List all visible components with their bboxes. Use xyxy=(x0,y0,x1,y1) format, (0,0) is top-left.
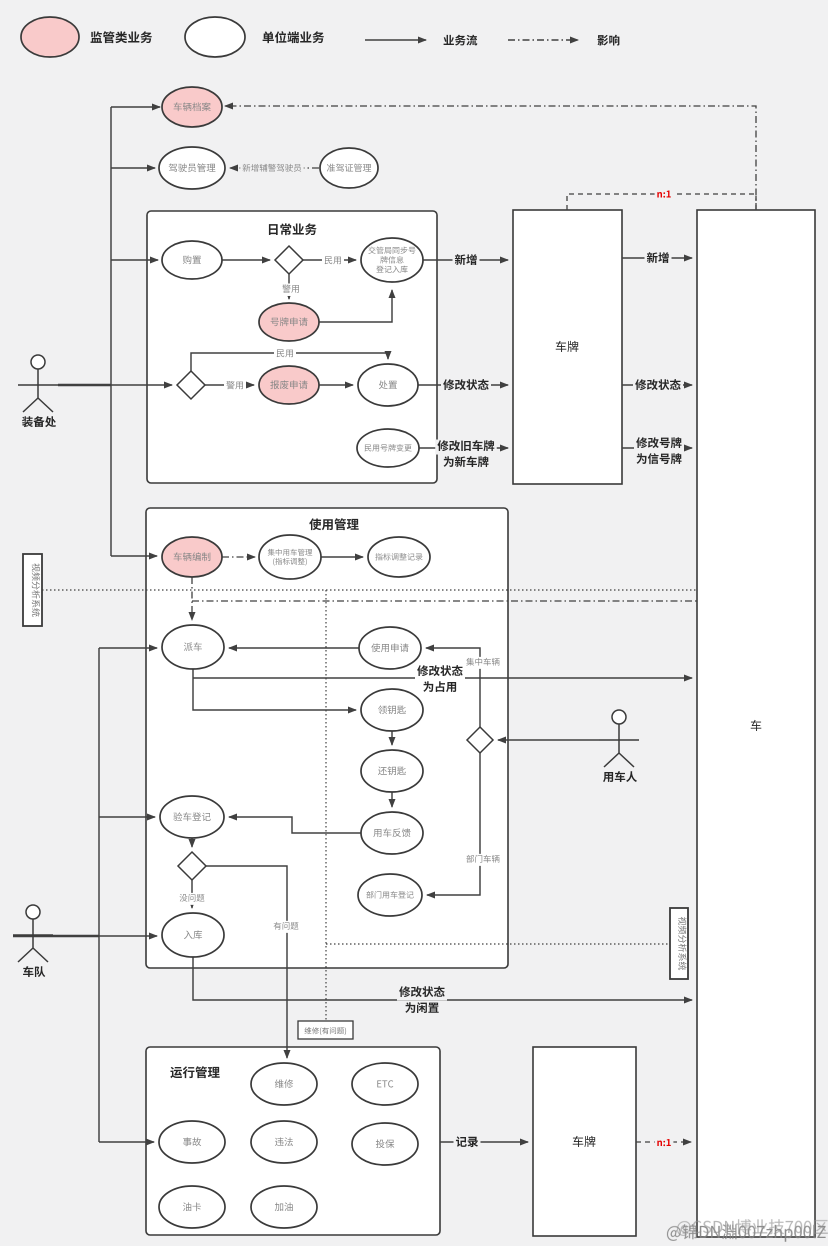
node 号牌申请 xyxy=(259,303,319,341)
diamond D4 xyxy=(178,852,206,880)
node 油卡 xyxy=(159,1186,225,1228)
node 验车登记 xyxy=(160,796,224,838)
label system left xyxy=(32,563,40,616)
title 日常业务 xyxy=(269,223,317,235)
dashdot influence 车→车辆档案 xyxy=(225,106,756,210)
wire trunk2→事故 xyxy=(99,1141,154,1143)
wire 入库→车 修改状态为闲置 xyxy=(193,957,692,1000)
wire diamond4→维修 有问题 xyxy=(206,866,287,1058)
wire 车牌→车 修改号牌 xyxy=(622,447,692,449)
label 修改状态为闲置 xyxy=(397,986,447,1001)
diamond D3 xyxy=(467,727,493,753)
wire 派车→领钥匙 xyxy=(193,669,356,710)
wire trunk2→派车 xyxy=(99,647,157,649)
legend unit-ellipse xyxy=(185,17,245,57)
wire 验车登记→diamond4 xyxy=(191,838,193,847)
node 领钥匙 xyxy=(361,689,423,731)
node 使用申请 xyxy=(359,627,421,669)
node 加油 xyxy=(251,1186,317,1228)
label n:1 bottom xyxy=(655,1137,674,1150)
dashdot 车辆编制→派车 xyxy=(191,577,193,620)
node 车辆档案 xyxy=(162,87,222,127)
trunk 装备处 vertical xyxy=(110,107,112,556)
label 新增 right xyxy=(645,252,672,267)
wire trunk→购置 xyxy=(111,259,158,261)
wire trunk→驾驶员管理 xyxy=(111,167,155,169)
dotted link bottom xyxy=(326,943,670,945)
legend label 监管类业务 xyxy=(91,31,153,43)
dashdot 准驾证管理→驾驶员管理 xyxy=(230,167,319,169)
node 用车反馈 xyxy=(361,812,423,854)
label 车牌 lower xyxy=(573,1136,596,1147)
diamond D1 xyxy=(275,246,303,274)
wire diamond2→报废申请 警用 xyxy=(205,384,254,386)
node 车辆编制 xyxy=(162,537,222,577)
box 车牌 lower xyxy=(533,1047,636,1236)
node 集中用车管理 xyxy=(259,535,321,579)
watermark xyxy=(667,1224,826,1242)
wire 使用申请→派车 xyxy=(229,647,359,649)
legend label 业务流 xyxy=(444,35,478,46)
legend influence arrow xyxy=(508,39,578,41)
dashdot 车辆编制→集中用车管理 xyxy=(222,556,255,558)
node 事故 xyxy=(159,1121,225,1163)
box 车牌 upper xyxy=(513,210,622,484)
label 修改号牌为信号牌 xyxy=(634,437,684,452)
diamond D2 xyxy=(177,371,205,399)
node 派车 xyxy=(162,625,224,669)
label 修改状态 left xyxy=(441,379,491,394)
wire 处置→车牌 修改状态 xyxy=(418,384,508,386)
wire 民用号牌变更→车牌 xyxy=(419,447,508,449)
label 修改状态为占用 xyxy=(415,665,465,680)
label 修改旧车牌为新车牌 xyxy=(435,440,497,455)
wire 车队 bold segment xyxy=(13,935,99,938)
dashed 车牌→车 n:1 xyxy=(636,1141,691,1143)
label n:1 top xyxy=(655,189,674,202)
title 运行管理 xyxy=(170,1066,219,1078)
legend label 影响 xyxy=(598,35,620,46)
node 民用号牌变更 xyxy=(357,429,419,467)
node 驾驶员管理 xyxy=(159,147,225,189)
wire 用车反馈→验车登记 xyxy=(229,817,361,833)
wire 报废申请→处置 xyxy=(319,384,353,386)
actor 装备处 xyxy=(31,355,45,369)
actor 车队 xyxy=(26,905,40,919)
node 指标调整记录 xyxy=(368,537,430,577)
label 新增辅警驾驶员 xyxy=(240,163,304,175)
box 日常业务 xyxy=(147,211,437,483)
wire 车牌→车 新增 xyxy=(622,257,692,259)
box 使用管理 xyxy=(146,508,508,968)
legend supervision-ellipse xyxy=(21,17,79,57)
node 还钥匙 xyxy=(361,750,423,792)
label 车 xyxy=(751,720,762,731)
wire 车队→入库 xyxy=(13,935,157,937)
wire 用车人→diamond3 xyxy=(498,739,599,741)
node 部门用车登记 xyxy=(358,874,422,916)
label 警用 row2 xyxy=(224,380,246,393)
label box 维修(有问题) xyxy=(298,1021,353,1039)
node 交管局同步号牌信息登记入库 xyxy=(361,238,423,282)
label 新增 left xyxy=(453,254,480,269)
wire 号牌申请→交管局 xyxy=(319,290,392,322)
box 车 xyxy=(697,210,815,1237)
label 警用 row1 xyxy=(280,283,302,296)
node 维修 xyxy=(251,1063,317,1105)
wire trunk2→验车登记 xyxy=(99,816,155,818)
wire 运行管理→车牌 记录 xyxy=(440,1141,528,1143)
label 有问题 xyxy=(271,921,301,933)
wire 集中用车管理→指标调整记录 xyxy=(321,556,363,558)
node 违法 xyxy=(251,1121,317,1163)
box 运行管理 xyxy=(146,1047,440,1235)
node 购置 xyxy=(162,241,222,279)
wire diamond4→入库 没问题 xyxy=(191,880,193,908)
wire trunk→车辆编制 xyxy=(111,555,157,557)
box system left xyxy=(23,554,42,626)
wire diamond1→号牌申请 警用 xyxy=(288,274,290,299)
label 民用 row1 xyxy=(322,255,344,267)
dotted link top xyxy=(42,589,697,591)
label 没问题 xyxy=(177,893,207,905)
label 部门车辆 xyxy=(464,854,502,866)
wire 车牌→车 修改状态 xyxy=(622,384,692,386)
label 集中车辆 xyxy=(464,657,502,669)
box system right xyxy=(670,908,688,979)
wire 派车→车 修改状态为占用 xyxy=(193,677,692,679)
dashed n:1 top connector xyxy=(567,194,756,210)
wire 领钥匙→还钥匙 xyxy=(391,731,393,745)
label 车牌 upper xyxy=(556,341,579,352)
trunk 车队 vertical xyxy=(98,648,100,1142)
actor 用车人 xyxy=(612,710,626,724)
label 修改状态 right xyxy=(633,379,683,394)
wire diamond3→部门用车登记 xyxy=(427,753,480,895)
dotted link vertical xyxy=(325,590,327,1021)
wire 购置→diamond1 xyxy=(222,259,270,261)
wire 还钥匙→用车反馈 xyxy=(391,792,393,807)
legend flow arrow xyxy=(365,39,426,41)
node 处置 xyxy=(358,364,418,406)
wire diamond2 民用→处置 xyxy=(191,353,388,371)
title 使用管理 xyxy=(309,518,359,530)
label 记录 xyxy=(454,1136,481,1151)
node 报废申请 xyxy=(259,366,319,404)
node 准驾证管理 xyxy=(320,148,378,188)
wire 装备处→diamond xyxy=(58,384,172,386)
node 投保 xyxy=(352,1123,418,1165)
wire 交管局→车牌 新增 xyxy=(423,259,508,261)
wire diamond1→交管局 民用 xyxy=(303,259,356,261)
node 入库 xyxy=(162,913,224,957)
wire 装备处 bold segment xyxy=(58,384,111,387)
node ETC xyxy=(352,1063,418,1105)
label system right xyxy=(678,917,686,970)
legend label 单位端业务 xyxy=(263,31,325,43)
dashdot influence 车辆编制→车 xyxy=(192,600,697,602)
label 民用 row2 xyxy=(274,348,296,361)
wire 集中车辆 vertical xyxy=(426,648,480,727)
wire trunk→车辆档案 xyxy=(111,106,160,108)
